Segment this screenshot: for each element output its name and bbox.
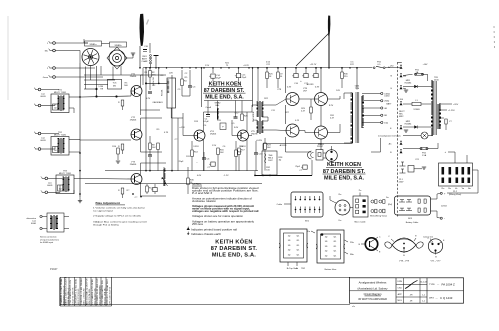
svg-text:10K: 10K xyxy=(220,152,224,154)
svg-text:1Ω: 1Ω xyxy=(59,188,62,190)
svg-text:SK2 (Wiring View): SK2 (Wiring View) xyxy=(370,215,387,218)
svg-text:Cable: Cable xyxy=(277,204,283,206)
svg-text:10K: 10K xyxy=(152,147,156,149)
svg-text:for 600Ω input: for 600Ω input xyxy=(40,241,54,244)
svg-text:15Ω: 15Ω xyxy=(384,122,388,124)
svg-text:4Ω: 4Ω xyxy=(384,108,387,110)
svg-text:1Ω: 1Ω xyxy=(288,240,291,242)
svg-text:1Ω: 1Ω xyxy=(54,150,57,152)
svg-text:600Ω: 600Ω xyxy=(40,96,45,98)
svg-text:SWB1a: SWB1a xyxy=(89,44,97,46)
svg-text:250Ω: 250Ω xyxy=(384,101,389,103)
svg-text:-1.2V: -1.2V xyxy=(224,175,230,177)
svg-text:(Rd): (Rd) xyxy=(388,204,392,206)
svg-text:9.6V: 9.6V xyxy=(234,127,239,129)
svg-text:MILE END, S.A.: MILE END, S.A. xyxy=(324,175,365,181)
svg-text:25μF: 25μF xyxy=(216,77,222,79)
svg-text:15Ω 8Ω 12V 4.2A: 15Ω 8Ω 12V 4.2A xyxy=(93,288,96,305)
svg-text:+20V: +20V xyxy=(453,104,459,106)
svg-text:DRN: DRN xyxy=(397,281,402,283)
svg-text:A/1128: A/1128 xyxy=(280,144,288,147)
svg-text:2N406: 2N406 xyxy=(210,133,217,135)
svg-text:AC: AC xyxy=(389,142,392,145)
svg-text:1.5A: 1.5A xyxy=(422,154,427,157)
svg-text:87 DAREBIN ST.: 87 DAREBIN ST. xyxy=(211,246,258,252)
svg-text:2 Supply voltage to SPL2 set: 2 Supply voltage to SPL2 set to 13volts xyxy=(93,215,142,218)
svg-text:1Ω: 1Ω xyxy=(279,159,282,161)
svg-text:1Ω: 1Ω xyxy=(325,251,328,253)
svg-text:Circuit Diagram: Circuit Diagram xyxy=(364,292,382,296)
svg-text:600Ω: 600Ω xyxy=(31,223,36,225)
svg-text:clockwise rotation: clockwise rotation xyxy=(192,200,217,203)
svg-text:10K: 10K xyxy=(267,147,271,149)
svg-text:Gram: Gram xyxy=(43,76,48,79)
svg-text:22K: 22K xyxy=(169,73,173,75)
svg-text:25μF: 25μF xyxy=(179,161,185,163)
svg-text:1Ω: 1Ω xyxy=(325,241,328,243)
svg-text:1Ω: 1Ω xyxy=(325,255,328,257)
svg-text:56K: 56K xyxy=(124,85,128,87)
svg-text:P-2 and Mid 3: P-2 and Mid 3 xyxy=(192,192,213,195)
svg-text:0.3V: 0.3V xyxy=(315,87,320,89)
svg-text:of input transformers: of input transformers xyxy=(40,238,59,241)
svg-text:IN1084: IN1084 xyxy=(405,123,413,125)
svg-text:MLS: MLS xyxy=(398,300,403,302)
svg-text:Colour Dot: Colour Dot xyxy=(423,236,433,239)
svg-text:voltages are negative with res: voltages are negative with respect to pr… xyxy=(192,210,259,213)
svg-text:Indicates printed board positi: Indicates printed board positive rail xyxy=(191,228,238,231)
svg-text:+4.5V: +4.5V xyxy=(179,127,185,129)
svg-text:B-: B- xyxy=(296,268,298,270)
svg-text:0.1μF: 0.1μF xyxy=(203,121,209,123)
svg-text:2N406: 2N406 xyxy=(130,120,137,122)
svg-text:APP: APP xyxy=(398,293,403,296)
svg-text:0.3V: 0.3V xyxy=(287,87,292,89)
svg-text:14V: 14V xyxy=(336,90,340,92)
svg-text:Cutoff: Cutoff xyxy=(205,106,211,109)
svg-text:1Ω: 1Ω xyxy=(288,245,291,247)
svg-text:0.6mV 50 30W 5%: 0.6mV 50 30W 5% xyxy=(72,287,74,304)
svg-text:+8.2V: +8.2V xyxy=(243,65,249,67)
svg-text:1Ω: 1Ω xyxy=(325,246,328,248)
svg-text:TYPE: TYPE xyxy=(429,284,435,286)
svg-text:3 Adjust Bias control to giv: 3 Adjust Bias control to give reading cu… xyxy=(93,221,147,224)
svg-text:1Ω: 1Ω xyxy=(288,254,291,256)
svg-text:600Ω: 600Ω xyxy=(40,140,45,142)
svg-text:600Ω: 600Ω xyxy=(47,185,52,187)
svg-text:MULTI T1Ω/1: MULTI T1Ω/1 xyxy=(54,134,67,136)
svg-text:12V 4.2A 0.6mV 50: 12V 4.2A 0.6mV 50 xyxy=(108,286,111,304)
svg-text:30W 5% PA 1004: 30W 5% PA 1004 xyxy=(88,288,91,305)
svg-text:25μF: 25μF xyxy=(242,77,248,79)
svg-text:MULTI T1Ω/1: MULTI T1Ω/1 xyxy=(54,92,67,94)
svg-text:Battery Cable: Battery Cable xyxy=(406,221,419,224)
svg-text:PA 1004 -2DB 1Kc: PA 1004 -2DB 1Kc xyxy=(103,288,106,305)
svg-text:1.5V: 1.5V xyxy=(212,145,217,147)
svg-text:MULTI T1Ω/1: MULTI T1Ω/1 xyxy=(59,173,72,175)
svg-text:Bottom View: Bottom View xyxy=(325,268,337,271)
svg-text:(Australasia) Ltd. Sydney: (Australasia) Ltd. Sydney xyxy=(357,287,388,291)
svg-text:1.5M: 1.5M xyxy=(98,86,103,88)
svg-text:-: - xyxy=(444,217,445,220)
svg-text:Mic: Mic xyxy=(45,50,48,52)
svg-text:8Ω: 8Ω xyxy=(384,115,387,117)
svg-text:(Wiring View): (Wiring View) xyxy=(449,193,462,196)
svg-text:1.5V: 1.5V xyxy=(205,65,210,67)
svg-text:600Ω 2W REMARKS: 600Ω 2W REMARKS xyxy=(98,285,101,305)
svg-text:25% less: 25% less xyxy=(192,223,204,226)
svg-text:2N?07: 2N?07 xyxy=(317,146,324,148)
svg-text:BATT: BATT xyxy=(142,58,148,61)
svg-text:R4 10K: R4 10K xyxy=(162,89,164,96)
svg-text:1284Ω: 1284Ω xyxy=(413,109,420,111)
svg-text:Voltages shown are for mains o: Voltages shown are for mains operation xyxy=(192,215,244,218)
svg-text:DRG: DRG xyxy=(429,298,434,300)
svg-text:CHAR: CHAR xyxy=(142,60,148,63)
svg-text:0.2V: 0.2V xyxy=(146,98,151,100)
svg-text:PA 1004 Z: PA 1004 Z xyxy=(442,282,456,286)
svg-text:4.7K: 4.7K xyxy=(164,132,169,134)
svg-text:MILE END, S.A.: MILE END, S.A. xyxy=(205,95,244,101)
svg-text:12Volt: 12Volt xyxy=(441,205,447,208)
svg-text:CKD: CKD xyxy=(398,288,403,290)
svg-text:Series connection: Series connection xyxy=(40,236,57,239)
svg-text:SWB1b: SWB1b xyxy=(114,45,122,47)
svg-text:VT1 - VT7: VT1 - VT7 xyxy=(431,261,442,263)
svg-text:2N406: 2N406 xyxy=(130,164,137,166)
svg-text:8.2V: 8.2V xyxy=(329,105,334,107)
svg-text:AC: AC xyxy=(388,66,391,69)
svg-text:1Ω/C: 1Ω/C xyxy=(268,160,273,162)
svg-text:IN1084: IN1084 xyxy=(405,82,413,84)
svg-text:2N406: 2N406 xyxy=(130,76,137,78)
svg-text:4 Ω/4: 4 Ω/4 xyxy=(398,99,404,101)
svg-text:25μF: 25μF xyxy=(295,166,301,168)
svg-text:240V: 240V xyxy=(399,182,404,184)
svg-text:no signal input: no signal input xyxy=(93,209,114,212)
svg-text:Bias Adjustment: Bias Adjustment xyxy=(96,201,120,205)
svg-text:1Ω: 1Ω xyxy=(54,107,57,109)
svg-text:10Kc -4 600Ω 2W: 10Kc -4 600Ω 2W xyxy=(83,288,85,304)
svg-text:BATT: BATT xyxy=(386,103,392,106)
svg-text:Indicates chassis earth: Indicates chassis earth xyxy=(191,233,222,236)
svg-text:+14V: +14V xyxy=(423,64,429,66)
svg-text:1 Volume controls set fully: 1 Volume controls set fully anti-clockwi… xyxy=(93,207,146,210)
svg-text:1Ω: 1Ω xyxy=(288,250,291,252)
svg-text:3.95V: 3.95V xyxy=(193,146,199,148)
svg-text:-0.45V: -0.45V xyxy=(256,140,263,142)
svg-text:VT8 - VT9: VT8 - VT9 xyxy=(399,261,410,263)
svg-text:P1947: P1947 xyxy=(50,267,58,271)
svg-text:0.060: 0.060 xyxy=(384,96,390,98)
svg-text:47K: 47K xyxy=(152,74,156,76)
svg-text:JH: JH xyxy=(410,295,413,297)
svg-text:C Q 1443: C Q 1443 xyxy=(440,296,453,300)
svg-text:2N07B: 2N07B xyxy=(251,133,258,135)
svg-text:1Ω: 1Ω xyxy=(325,237,328,239)
svg-text:+15.7V: +15.7V xyxy=(310,64,317,66)
svg-text:KEITH KÖEN: KEITH KÖEN xyxy=(215,238,253,245)
svg-text:1Ω: 1Ω xyxy=(288,236,291,238)
svg-text:Amalgamated Wireless: Amalgamated Wireless xyxy=(359,281,387,285)
svg-text:TR4 INTER: TR4 INTER xyxy=(253,111,255,122)
svg-text:through F12 at 500ma: through F12 at 500ma xyxy=(93,223,120,226)
svg-text:0.6V: 0.6V xyxy=(197,175,202,177)
svg-text:+1.25V: +1.25V xyxy=(448,110,455,112)
svg-text:Micro Cable: Micro Cable xyxy=(354,221,366,224)
svg-text:30 WATT PA AMPLIFIER: 30 WATT PA AMPLIFIER xyxy=(358,297,387,301)
svg-text:3.05V: 3.05V xyxy=(240,146,246,148)
svg-text:MILE END, S.A.: MILE END, S.A. xyxy=(212,253,256,259)
svg-text:20-1-65: 20-1-65 xyxy=(420,282,428,284)
svg-text:600Ω CT 15Ω 8Ω: 600Ω CT 15Ω 8Ω xyxy=(78,288,80,304)
svg-text:OA91: OA91 xyxy=(157,101,163,104)
